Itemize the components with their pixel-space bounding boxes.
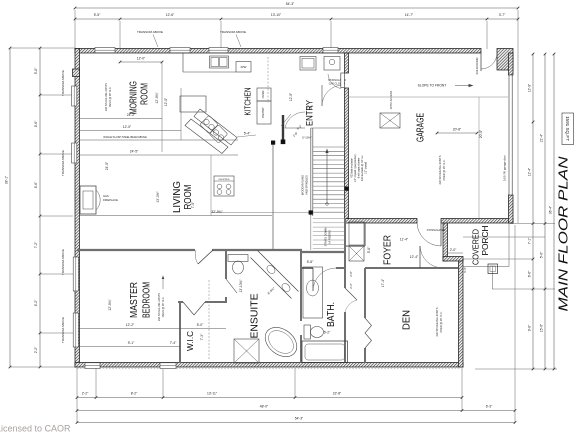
svg-text:15'-0": 15'-0" (539, 323, 543, 332)
window kitchen left (170, 48, 190, 53)
top dimension lines (74, 2, 520, 223)
svg-text:38'-1": 38'-1" (4, 175, 8, 184)
svg-text:9'-1": 9'-1" (128, 341, 135, 345)
label master bedroom (128, 282, 153, 318)
svg-text:14 RISERS: 14 RISERS (328, 230, 332, 244)
svg-text:ENTRY: ENTRY (305, 99, 316, 126)
svg-text:12'-0": 12'-0" (137, 57, 146, 61)
hall west half wall (271, 141, 275, 251)
svg-text:STAIRS DOWN: STAIRS DOWN (324, 228, 328, 247)
den north wall (365, 267, 458, 269)
living room east boundary (210, 155, 212, 216)
svg-text:20'-0": 20'-0" (479, 129, 483, 138)
svg-text:8'-2": 8'-2" (131, 392, 138, 396)
garage joist note (438, 155, 446, 184)
morning room interior dims (80, 57, 238, 171)
ensuite toilet (228, 255, 248, 275)
svg-text:1591 SQ.FT: 1591 SQ.FT (565, 116, 570, 141)
window morning room top (95, 48, 115, 53)
wic west wall (179, 302, 181, 363)
washer (324, 57, 340, 71)
watermark (0, 423, 71, 432)
svg-text:SLOPE TO FRONT: SLOPE TO FRONT (418, 84, 447, 88)
svg-text:GARAGE: GARAGE (415, 113, 427, 142)
svg-text:54'-3": 54'-3" (286, 2, 295, 6)
garage west wall lower (345, 88, 349, 219)
bath east wall (344, 252, 346, 363)
entry west wall (281, 115, 286, 144)
closet walls by stairs (345, 218, 365, 252)
svg-text:COVERED: COVERED (472, 229, 481, 265)
garage bottom wall right of front door (441, 219, 513, 224)
window master left lower (73, 313, 78, 347)
left dimension lines (4, 47, 75, 369)
hall floor break (211, 212, 311, 214)
right dimension lines (447, 53, 557, 371)
top wall right segment / door notch (497, 49, 513, 71)
svg-text:16/0 7/0 garage door: 16/0 7/0 garage door (503, 155, 507, 181)
svg-text:MAIN FLOOR PLAN: MAIN FLOOR PLAN (557, 155, 571, 311)
svg-text:5'-8": 5'-8" (367, 246, 371, 253)
svg-text:TRANSOM ABOVE: TRANSOM ABOVE (61, 249, 65, 275)
bath door (313, 268, 336, 291)
svg-text:54'-3": 54'-3" (295, 417, 304, 421)
dropped ceiling light box (214, 176, 234, 196)
garage to entry door (328, 73, 344, 89)
laundry sink (300, 57, 316, 71)
svg-text:Licensed to CAOR: Licensed to CAOR (0, 423, 71, 432)
wic north wall (178, 301, 227, 303)
window living room left (72, 143, 77, 163)
foyer closet (349, 222, 364, 245)
porch outline and column (463, 223, 509, 289)
svg-text:5'-10¾": 5'-10¾" (302, 136, 311, 140)
svg-text:2x6 SP.CEILING JOISTS: 2x6 SP.CEILING JOISTS (435, 307, 439, 336)
svg-text:7'-4": 7'-4" (170, 341, 177, 345)
svg-text:1/2" drywall: 1/2" drywall (365, 161, 368, 174)
den east exterior wall (459, 259, 464, 367)
master bedroom door (195, 250, 213, 264)
svg-text:DROPPED: DROPPED (219, 179, 230, 181)
sq ft box (562, 113, 574, 145)
bottom exterior wall (75, 363, 463, 368)
left wall pilaster (73, 69, 80, 77)
svg-text:22'-8": 22'-8" (333, 392, 342, 396)
svg-text:36'-4": 36'-4" (548, 205, 552, 214)
svg-text:OVER @ 16" O.C.: OVER @ 16" O.C. (109, 86, 112, 107)
svg-text:SOLID DOOR: SOLID DOOR (475, 58, 479, 75)
svg-text:12'-0": 12'-0" (123, 125, 132, 129)
svg-text:12'-0": 12'-0" (289, 92, 293, 101)
svg-text:FOYER: FOYER (382, 235, 394, 265)
svg-text:TRANSOM ABOVE: TRANSOM ABOVE (61, 150, 65, 176)
svg-text:12'-2": 12'-2" (126, 323, 135, 327)
svg-text:5'-0": 5'-0" (197, 323, 204, 327)
window master bottom 2 (160, 363, 176, 369)
svg-text:D/W: D/W (241, 65, 247, 69)
svg-text:12'-9¾": 12'-9¾" (108, 299, 112, 311)
stairs down note (324, 228, 332, 247)
attic access (380, 90, 400, 128)
svg-text:24'-2": 24'-2" (127, 113, 136, 117)
kitchen island with cooktop (185, 109, 237, 154)
svg-text:5'-8": 5'-8" (34, 67, 38, 74)
window master left upper (73, 257, 78, 291)
bath dims (307, 260, 353, 335)
garage west wall upper (345, 53, 349, 73)
svg-text:OVER @ 16" O.C.: OVER @ 16" O.C. (439, 311, 443, 333)
svg-text:32'-9¾": 32'-9¾" (211, 210, 223, 214)
label morning room (128, 81, 151, 114)
foyer step wall horizontal (443, 257, 463, 262)
hall closet door (345, 288, 357, 312)
svg-text:13'-11": 13'-11" (207, 392, 218, 396)
entry dims (289, 92, 314, 138)
svg-text:OVER @ 16" O.C.: OVER @ 16" O.C. (162, 296, 165, 317)
bottom wall sill dashes (77, 368, 461, 370)
staircase up (311, 128, 345, 216)
gas fireplace (80, 186, 118, 214)
svg-text:6'-2": 6'-2" (324, 331, 331, 335)
ensuite door (226, 279, 237, 293)
svg-text:2'-2": 2'-2" (34, 346, 38, 353)
front door (417, 223, 445, 246)
svg-text:ATTIC ACCESS: ATTIC ACCESS (389, 90, 393, 109)
svg-text:2'-2": 2'-2" (349, 283, 353, 289)
svg-text:5'-4": 5'-4" (463, 267, 467, 272)
svg-text:MASTER: MASTER (128, 282, 140, 318)
svg-text:DEN: DEN (401, 310, 413, 330)
bath tub (302, 341, 348, 363)
bottom dimension lines (76, 225, 517, 424)
svg-text:7'-3": 7'-3" (200, 333, 204, 340)
svg-text:TRANSOM ABOVE: TRANSOM ABOVE (61, 70, 65, 96)
svg-text:PANTRY: PANTRY (261, 107, 265, 118)
master interior dims (80, 276, 226, 347)
living room interior dims (80, 132, 272, 216)
stair railing note (301, 175, 309, 195)
ensuite shower (234, 339, 259, 363)
ensuite vanity diagonal (251, 251, 299, 299)
ensuite east wall (300, 250, 302, 363)
main floor plan title (557, 155, 571, 311)
garage interior line (478, 97, 480, 218)
ovens and pantry (257, 88, 271, 124)
ensuite west wall (225, 250, 227, 303)
window morning room left (72, 86, 77, 106)
bath north wall (301, 267, 345, 269)
svg-text:ST.INSULATED: ST.INSULATED (427, 228, 446, 232)
left exterior wall (75, 49, 80, 368)
den west wall (364, 268, 366, 363)
wic double doors (183, 302, 205, 315)
dishwasher (236, 62, 251, 73)
svg-text:AND SPINDLES: AND SPINDLES (305, 175, 309, 195)
svg-text:W10x22 FLUSH STEEL BEAM ABOVE: W10x22 FLUSH STEEL BEAM ABOVE (103, 136, 147, 139)
svg-text:7'-2": 7'-2" (34, 241, 38, 248)
label covered porch (472, 225, 491, 265)
svg-text:7'-6": 7'-6" (307, 106, 314, 110)
svg-text:9'-8": 9'-8" (527, 324, 531, 331)
svg-text:6'-3": 6'-3" (486, 405, 493, 409)
svg-text:12'-4": 12'-4" (410, 255, 419, 259)
ensuite dims (239, 279, 276, 296)
bath toilet (304, 325, 324, 339)
svg-text:8'-6": 8'-6" (34, 120, 38, 127)
svg-text:5'-8": 5'-8" (307, 260, 314, 264)
svg-text:OVEN: OVEN (261, 91, 265, 99)
garage slab line (349, 96, 508, 98)
svg-text:2'-8": 2'-8" (349, 271, 353, 277)
svg-text:2x6 SP.CEILING JOISTS: 2x6 SP.CEILING JOISTS (438, 155, 442, 184)
foyer linen closet (349, 246, 364, 261)
svg-text:BEDROOM: BEDROOM (141, 282, 153, 318)
garage bottom wall left of front door (345, 219, 418, 224)
svg-text:LIVING: LIVING (172, 181, 183, 213)
svg-text:3'-7": 3'-7" (499, 13, 506, 17)
bath vanity (303, 267, 323, 318)
kitchen sink (210, 56, 229, 68)
svg-text:TRANSOM ABOVE: TRANSOM ABOVE (137, 30, 163, 34)
svg-text:24'-5": 24'-5" (130, 149, 139, 153)
svg-text:21'-4": 21'-4" (539, 133, 543, 142)
svg-text:5'-0": 5'-0" (539, 251, 543, 258)
refrigerator (180, 96, 206, 112)
svg-text:12'-4": 12'-4" (527, 167, 531, 176)
svg-text:KITCHEN: KITCHEN (244, 87, 253, 115)
wall insulation note (351, 154, 368, 183)
svg-text:12'-6": 12'-6" (166, 13, 175, 17)
svg-text:7'-1": 7'-1" (527, 237, 531, 244)
svg-text:12'-0": 12'-0" (164, 97, 168, 106)
den joist note (435, 307, 443, 336)
svg-text:ROOM: ROOM (139, 83, 151, 105)
svg-text:13'-3½": 13'-3½" (156, 191, 160, 203)
svg-text:8'-6": 8'-6" (34, 181, 38, 188)
svg-text:2'-2": 2'-2" (82, 392, 89, 396)
den foyer dims (367, 238, 463, 288)
svg-text:6'-6": 6'-6" (527, 270, 531, 277)
svg-text:12'-9": 12'-9" (527, 83, 531, 92)
svg-text:TRANSOM ABOVE: TRANSOM ABOVE (220, 30, 246, 34)
kitchen counter (183, 53, 236, 72)
svg-text:13'-10¾": 13'-10¾" (239, 279, 243, 293)
svg-text:WOOD RAILING: WOOD RAILING (301, 175, 305, 195)
svg-text:5'-4": 5'-4" (244, 132, 251, 136)
svg-text:14'-7": 14'-7" (405, 13, 414, 17)
garage east wall upper (509, 53, 514, 75)
den french doors (365, 318, 372, 348)
hall door (281, 112, 312, 140)
svg-text:8'-2": 8'-2" (34, 299, 38, 306)
garage dims (436, 128, 483, 139)
staircase down (311, 216, 345, 250)
stair newel node (309, 210, 313, 214)
garage overhead door (503, 75, 513, 195)
svg-text:ENSUITE: ENSUITE (250, 293, 261, 338)
svg-text:OVER @ 16" O.C.: OVER @ 16" O.C. (442, 159, 446, 181)
svg-text:TRANSOM ABOVE: TRANSOM ABOVE (61, 317, 65, 343)
ensuite tub (260, 321, 303, 362)
svg-text:BATH.: BATH. (326, 302, 337, 327)
den door (420, 246, 443, 268)
svg-text:11'-4": 11'-4" (400, 238, 409, 242)
label living room (172, 181, 194, 213)
svg-text:PORCH: PORCH (481, 225, 490, 255)
solid door to garage (475, 53, 497, 74)
svg-text:13'-10": 13'-10" (271, 13, 282, 17)
svg-text:5'-5": 5'-5" (94, 13, 101, 17)
stair garage wall node (345, 187, 349, 191)
window kitchen sink (209, 48, 228, 53)
hall south wall y250 (77, 250, 344, 252)
top exterior wall (75, 49, 481, 54)
svg-text:2x6 SP.CEILING JOISTS: 2x6 SP.CEILING JOISTS (158, 293, 161, 321)
svg-text:48'-0": 48'-0" (260, 405, 269, 409)
svg-text:2x6 SP.CEILING JOISTS: 2x6 SP.CEILING JOISTS (105, 83, 108, 111)
svg-text:7'-0": 7'-0" (191, 201, 195, 208)
svg-text:2'-0": 2'-0" (450, 248, 457, 252)
svg-text:GAS: GAS (103, 194, 109, 198)
garage east wall lower (509, 195, 514, 223)
svg-text:FIREPLACE: FIREPLACE (103, 198, 118, 202)
svg-text:17'-4": 17'-4" (381, 278, 385, 287)
slope to front arrow (418, 84, 474, 88)
transom notes top (137, 30, 246, 47)
kitchen dashed line (267, 57, 269, 103)
foyer step wall vertical (443, 223, 448, 261)
svg-text:W.I.C: W.I.C (186, 331, 195, 351)
svg-text:24'-0": 24'-0" (105, 161, 109, 170)
wic closet rod (208, 280, 210, 360)
window entry transom (323, 48, 338, 53)
svg-text:12'-9¾": 12'-9¾" (155, 92, 159, 104)
transom notes left (61, 70, 65, 343)
svg-text:20'-8": 20'-8" (453, 128, 462, 132)
window master bottom 1 (85, 363, 100, 369)
entry closet door (322, 78, 346, 106)
